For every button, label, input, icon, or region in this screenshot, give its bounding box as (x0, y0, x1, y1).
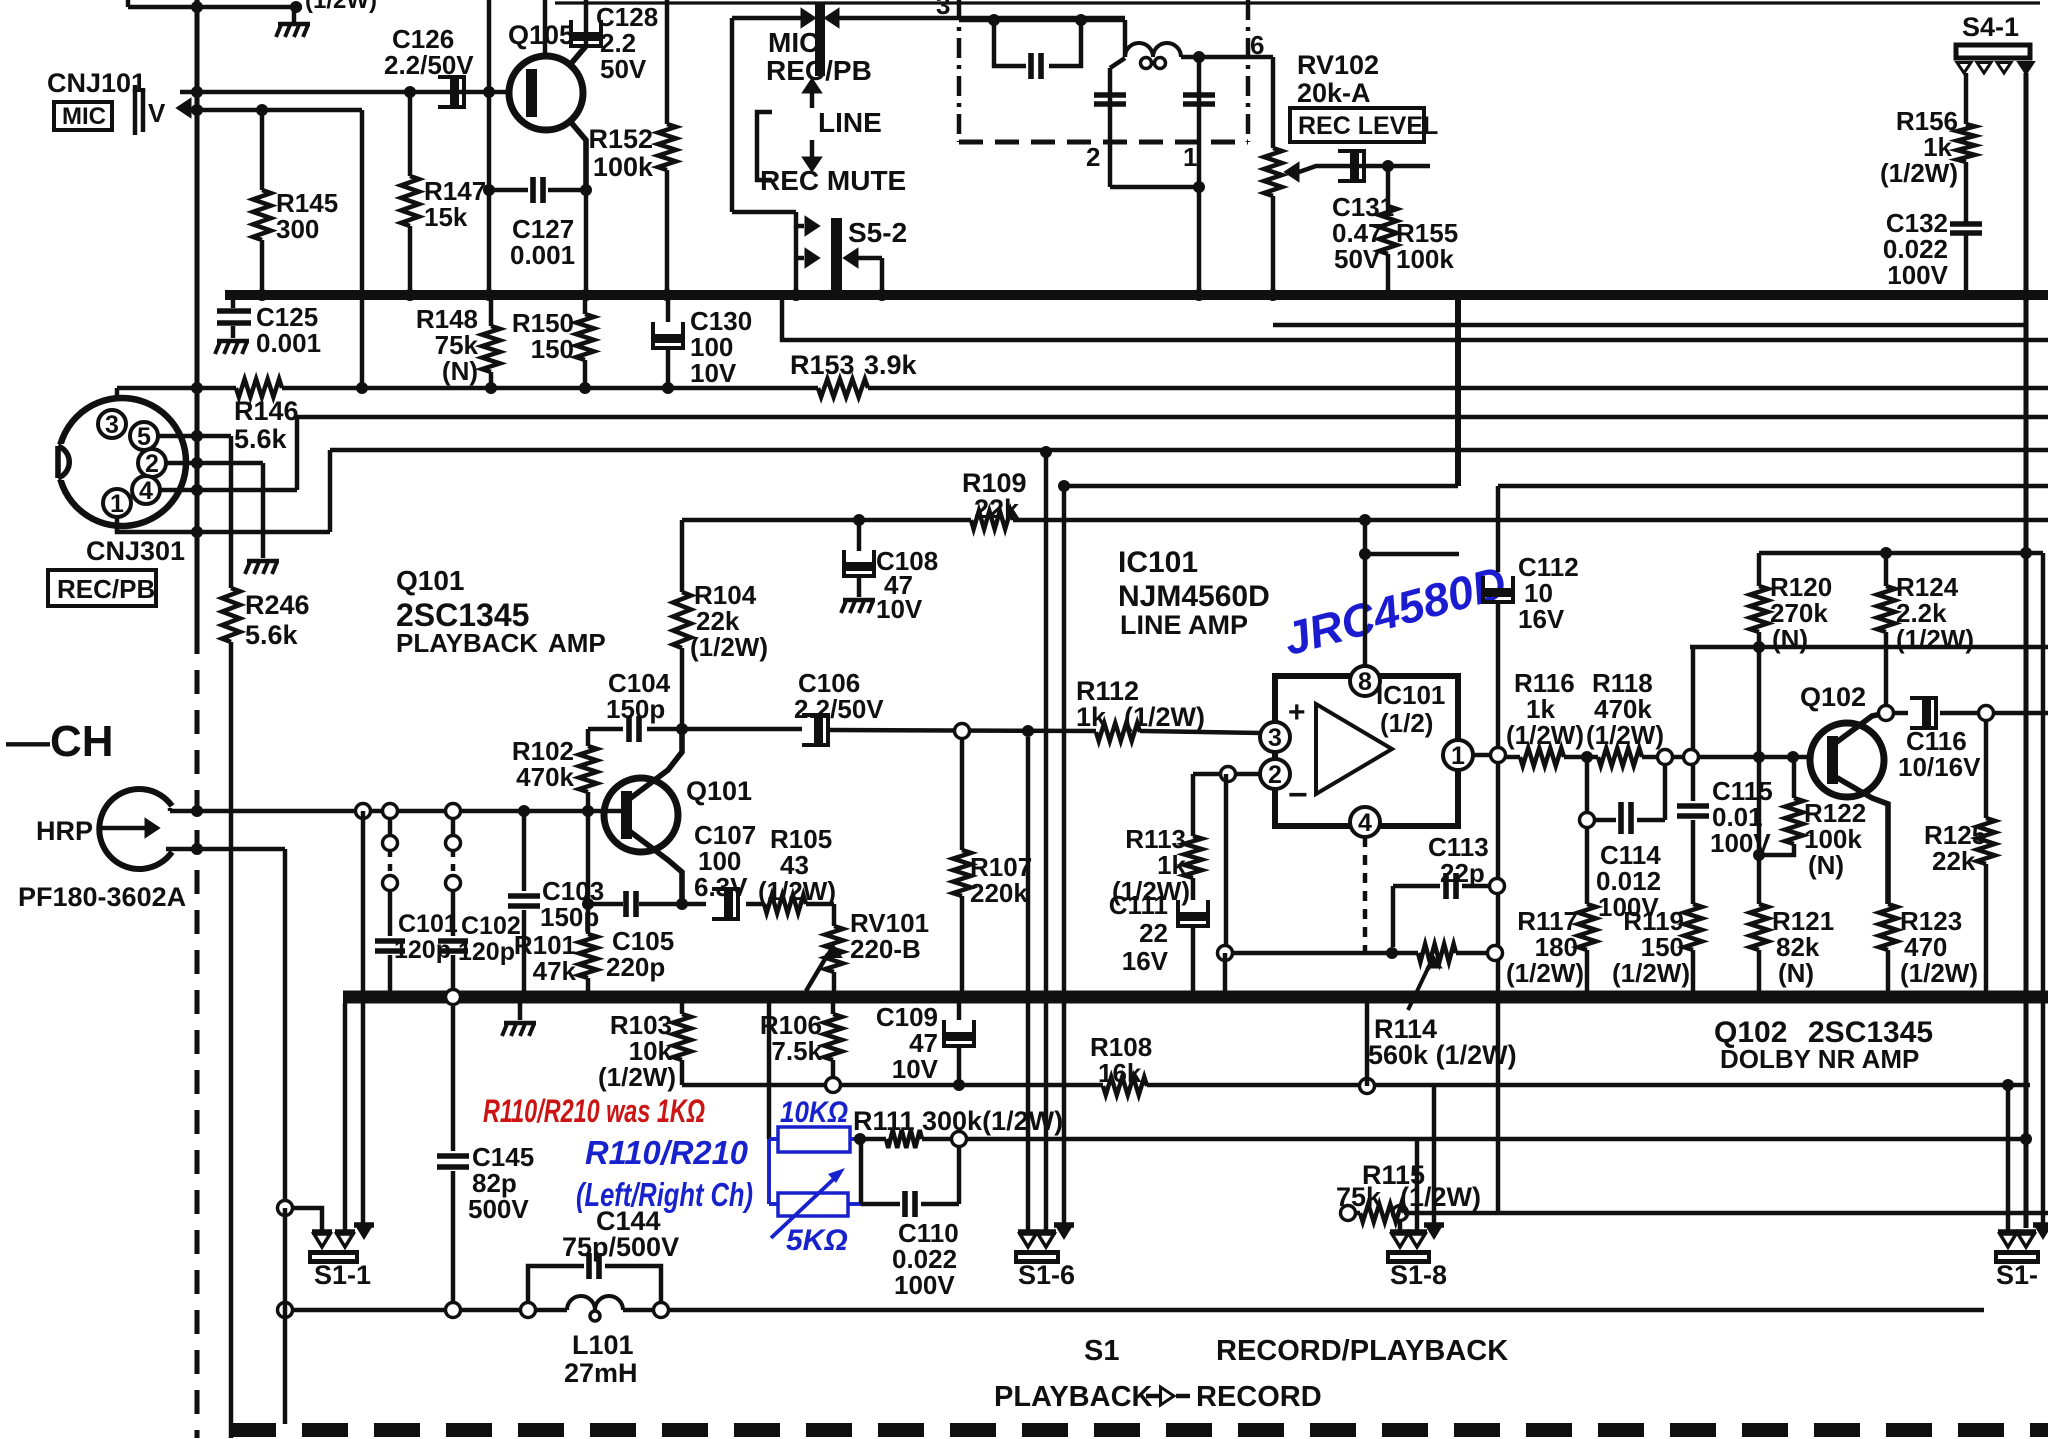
svg-text:(1/2W): (1/2W) (690, 632, 768, 662)
resistor R106 (824, 1003, 842, 1085)
label S1-x (1996, 1260, 2038, 1290)
svg-text:RECORD: RECORD (1196, 1381, 1322, 1413)
junction (1753, 751, 1765, 861)
switch arrow (806, 218, 818, 234)
capacitor C102 (438, 818, 468, 997)
label R152 (588, 124, 654, 182)
label R101 (514, 930, 577, 986)
label PF180-3602A (18, 882, 186, 912)
wire top border (555, 1, 2040, 4)
svg-text:MIC: MIC (768, 27, 819, 58)
resistor R117 (1578, 827, 1596, 997)
wire Q102 collector (1834, 706, 1894, 745)
wire line J (1365, 552, 1459, 556)
label C131 (1332, 192, 1394, 274)
wire (732, 212, 804, 226)
wire line D (1273, 295, 2026, 325)
resistor R125 (1977, 720, 1995, 997)
op-amp pin 8 (1350, 520, 1380, 696)
label R123 (1900, 906, 1978, 988)
svg-text:S1: S1 (1084, 1335, 1119, 1367)
wire C112 rail (1483, 486, 1513, 1213)
svg-text:10V: 10V (690, 358, 737, 388)
wire mic line 2 (197, 108, 362, 112)
wire line N (bottom) (285, 1308, 1984, 1312)
resistor R108 (1103, 1077, 1147, 1095)
junction (191, 382, 674, 394)
label R116 (1506, 668, 1584, 750)
switch arrow (796, 226, 818, 295)
junction (483, 86, 495, 98)
wire pin1 (117, 517, 330, 532)
svg-text:560k (1/2W): 560k (1/2W) (1368, 1040, 1517, 1070)
resistor R148 (482, 295, 500, 388)
wire (1223, 953, 1227, 991)
wire line M (R115) (1341, 1206, 2048, 1221)
connector pin 4 (132, 476, 160, 505)
junction (1193, 181, 1205, 193)
svg-text:4: 4 (1358, 809, 1372, 837)
wire line I right (1498, 484, 2048, 488)
wire HRP to S1-1 (283, 849, 287, 1208)
svg-text:RV102: RV102 (1297, 50, 1379, 80)
label R111 (853, 1106, 1063, 1136)
svg-text:22p: 22p (1440, 858, 1485, 888)
resistor R104 (673, 520, 691, 729)
switch S4-1 bar (1956, 45, 2030, 58)
switch MIC REC/PB bar (815, 2, 825, 76)
label - (1288, 776, 1308, 814)
node REC/PB box (48, 570, 156, 606)
capacitor C126 (438, 77, 464, 107)
capacitor C114 loop (1580, 757, 1666, 834)
svg-text:(1/2W): (1/2W) (1612, 958, 1690, 988)
label R117 (1506, 906, 1584, 988)
potentiometer RV102 (1264, 57, 1282, 295)
svg-text:Q101: Q101 (686, 776, 752, 806)
svg-text:16V: 16V (1518, 604, 1565, 634)
label head pin 6 (1250, 30, 1264, 60)
svg-text:3: 3 (936, 0, 950, 20)
svg-text:100V: 100V (1887, 260, 1948, 290)
wire pin1 out (1473, 748, 1506, 763)
svg-text:100V: 100V (894, 1270, 955, 1300)
label C114 (1596, 840, 1661, 922)
svg-text:+: + (1288, 696, 1306, 729)
connector pin 2 (138, 449, 166, 478)
label C112 (1518, 552, 1579, 634)
connector CNJ101 jack (135, 85, 190, 135)
plug ring (826, 1078, 841, 1093)
svg-text:IC101: IC101 (1118, 546, 1198, 579)
junction (1193, 289, 1205, 301)
wire ground bus (thick) (343, 991, 2048, 1004)
svg-text:2: 2 (1268, 761, 1282, 789)
capacitor C107 (712, 889, 738, 919)
capacitor C101 (375, 818, 405, 997)
capacitor C109 (944, 1003, 974, 1085)
rheostat R210 (blue) (769, 1168, 861, 1238)
svg-text:10V: 10V (892, 1054, 939, 1084)
label C116 (1898, 726, 1981, 782)
wire R146 top loop (360, 110, 364, 388)
junction (1267, 289, 1279, 301)
label C132 (1883, 208, 1949, 290)
label C125 (256, 302, 321, 358)
wire left rail dashed continuation (194, 630, 199, 1438)
label IC101 half (1376, 680, 1445, 738)
switch arrow down (804, 140, 820, 170)
svg-text:(1/2W): (1/2W) (758, 876, 836, 906)
label R110 red note (483, 1093, 705, 1129)
svg-text:75k: 75k (1336, 1182, 1382, 1212)
ground (245, 561, 279, 574)
wire pin5 drop (229, 436, 233, 588)
label C102 (458, 912, 521, 966)
svg-text:1k: 1k (1076, 702, 1107, 732)
svg-text:(1/2): (1/2) (1380, 708, 1433, 738)
svg-text:NJM4560D: NJM4560D (1118, 580, 1270, 613)
junction (676, 723, 688, 735)
label RV101 (850, 908, 929, 964)
switch arrow (845, 250, 882, 295)
svg-text:1: 1 (1183, 142, 1197, 172)
wire line K (1085) (682, 1083, 2030, 1087)
svg-text:(N): (N) (1772, 624, 1808, 654)
op-amp IC101 triangle (1316, 704, 1392, 794)
junction (483, 184, 592, 196)
label R155 (1396, 218, 1458, 274)
resistor R120 (1750, 553, 1768, 757)
svg-text:R111: R111 (853, 1106, 915, 1136)
node head box bottom (959, 139, 1248, 144)
label 5K (blue) (786, 1224, 848, 1257)
svg-text:C102: C102 (461, 912, 521, 940)
wire (361, 811, 365, 1227)
wire node line (R114) (1218, 946, 1503, 961)
junction (191, 430, 203, 538)
svg-text:RECORD/PLAYBACK: RECORD/PLAYBACK (1216, 1335, 1508, 1367)
svg-text:REC/PB: REC/PB (766, 55, 872, 86)
label CNJ301 (86, 536, 185, 566)
label R150 (512, 308, 574, 364)
transistor Q101 (604, 778, 678, 852)
wire pin4 bus drop (1365, 1003, 1369, 1086)
junction (191, 86, 203, 98)
switch arrow (826, 10, 838, 26)
capacitor C103 (508, 811, 540, 997)
label C110 (892, 1218, 959, 1300)
wire pin4 up (295, 492, 299, 496)
label R120 (1770, 572, 1832, 654)
label R125 (1924, 820, 1986, 876)
capacitor C105 (626, 891, 636, 917)
connector CNJ301 shell (48, 388, 186, 532)
wire 10K feed (767, 1003, 771, 1139)
resistor R147 (401, 92, 419, 295)
svg-text:CNJ101: CNJ101 (47, 68, 146, 98)
svg-text:4: 4 (139, 477, 153, 505)
capacitor head 2 (1183, 57, 1215, 187)
svg-text:S1-6: S1-6 (1018, 1260, 1075, 1290)
label playback-record (994, 1381, 1322, 1413)
label C127 (510, 214, 575, 270)
label C103 (540, 876, 604, 932)
svg-text:5: 5 (137, 423, 151, 451)
junction (256, 289, 673, 301)
label C105 (606, 926, 674, 982)
svg-text:LINE AMP: LINE AMP (1120, 610, 1248, 640)
label C113 (1428, 832, 1489, 888)
label C111 (1109, 890, 1169, 976)
junction (2020, 547, 2032, 1003)
label R103 (598, 1010, 676, 1092)
wire Q101 emitter (628, 830, 682, 904)
wire pin2 (166, 461, 263, 465)
op-amp pin 1 (1443, 740, 1473, 770)
label C107 (694, 820, 756, 902)
junction (953, 1079, 965, 1091)
svg-text:Q102: Q102 (1800, 682, 1866, 712)
svg-text:S5-2: S5-2 (848, 217, 907, 248)
label R107 (970, 852, 1032, 908)
junction (582, 898, 688, 910)
svg-text:3.9k: 3.9k (864, 350, 918, 380)
svg-text:R146: R146 (234, 396, 299, 426)
label head pin 2 (1086, 142, 1100, 172)
svg-text:C111: C111 (1109, 890, 1168, 920)
label C144 (562, 1206, 679, 1262)
svg-text:2.2/50V: 2.2/50V (794, 694, 884, 724)
svg-text:MIC: MIC (62, 103, 106, 130)
svg-text:S1-: S1- (1996, 1260, 2038, 1290)
junction (1581, 751, 1799, 763)
label S1-6 (1018, 1260, 1075, 1290)
label LINE (818, 107, 882, 138)
wire Q105 emitter (569, 120, 586, 190)
label R108 (1090, 1032, 1152, 1088)
resistor R246 (222, 588, 240, 1438)
wire (283, 1208, 287, 1424)
wire (1197, 187, 1201, 295)
svg-text:(N): (N) (442, 356, 478, 386)
transistor Q105 (509, 56, 583, 130)
switch arrow (802, 10, 814, 26)
wire right rail (2023, 73, 2028, 1228)
svg-text:L101: L101 (572, 1330, 634, 1360)
svg-text:5.6k: 5.6k (234, 424, 288, 454)
connector HRP head (99, 789, 172, 869)
label S1-1 (314, 1260, 371, 1290)
label Q102 block (1714, 1016, 1933, 1074)
plug ring (952, 1132, 967, 1147)
capacitor C106 (802, 715, 828, 745)
wire pin2 loop (1193, 767, 1260, 782)
label R102 (512, 736, 575, 792)
op-amp pin 4 (1350, 807, 1380, 837)
svg-text:5.6k: 5.6k (245, 620, 299, 650)
svg-text:220k: 220k (970, 878, 1028, 908)
plug ring (446, 990, 461, 1005)
resistor R146 (236, 379, 282, 397)
wire bottom dashed (thick) (230, 1423, 2048, 1437)
svg-text:V: V (148, 98, 166, 128)
label C104 (606, 668, 671, 724)
svg-text:75p/500V: 75p/500V (562, 1232, 679, 1262)
node head box right (1246, 0, 1250, 142)
wire line G (1690, 645, 2048, 649)
label REC MUTE (760, 165, 906, 196)
wire Q105 collector rail (543, 0, 547, 57)
capacitor head 1 (1094, 58, 1126, 187)
op-amp pin 3 (1260, 722, 1290, 752)
label C126 (384, 24, 474, 80)
label HRP (36, 816, 93, 846)
op-amp pin 2 (1260, 759, 1290, 789)
svg-text:1: 1 (110, 490, 124, 518)
resistor R103 (673, 1003, 691, 1085)
wire pin2 gnd (261, 463, 265, 558)
capacitor head series (994, 20, 1081, 79)
connector CNJ101 label (47, 68, 146, 98)
svg-text:3: 3 (105, 411, 119, 439)
resistor R153 (818, 379, 868, 397)
wire left vertical rail (194, 0, 199, 630)
label R153 (790, 350, 918, 380)
junction (384, 991, 1992, 1003)
wire (487, 0, 491, 295)
svg-text:10KΩ: 10KΩ (780, 1096, 848, 1129)
resistor R110 (blue) (769, 1127, 860, 1204)
label R121 (1772, 906, 1834, 988)
resistor R116 (1520, 748, 1564, 766)
svg-text:220p: 220p (606, 952, 665, 982)
switch S1-1 (278, 1003, 375, 1264)
label C130 (690, 306, 752, 388)
connector pin 3 (98, 410, 126, 439)
svg-text:(N): (N) (1778, 958, 1814, 988)
svg-text:R246: R246 (245, 590, 310, 620)
svg-text:(1/2W): (1/2W) (1506, 958, 1584, 988)
svg-text:8: 8 (1358, 668, 1372, 696)
switch S4-1 arrows (1957, 63, 2033, 74)
ground (215, 341, 249, 354)
transistor Q102 (1810, 723, 1884, 797)
wire long line B (297, 417, 2048, 490)
svg-text:(1/2W): (1/2W) (598, 1062, 676, 1092)
svg-text:PLAYBACK: PLAYBACK (994, 1381, 1153, 1413)
svg-text:(1/2W): (1/2W) (1124, 702, 1205, 732)
svg-text:—CH: —CH (6, 717, 114, 766)
resistor R114 (1418, 944, 1456, 962)
resistor R122 (1759, 757, 1803, 855)
resistor R152 (658, 0, 676, 295)
svg-text:C101: C101 (398, 910, 458, 938)
capacitor C132 (1950, 224, 1982, 295)
wire pin4 (160, 488, 297, 492)
svg-text:R153: R153 (790, 350, 855, 380)
svg-text:Q105: Q105 (508, 20, 574, 50)
resistor R101 (579, 904, 597, 997)
svg-text:300k(1/2W): 300k(1/2W) (922, 1106, 1063, 1136)
wire pin5 (158, 434, 231, 438)
label Q101 block (396, 565, 606, 658)
wire mic line (180, 90, 510, 94)
node MIC box (54, 102, 112, 130)
inductor head coil (1125, 20, 1181, 69)
label R124 (1896, 572, 1974, 654)
label R110 blue note (585, 1134, 749, 1171)
svg-text:16V: 16V (1122, 946, 1169, 976)
label Q101 (686, 776, 752, 806)
label R246 (245, 590, 310, 650)
svg-text:150p: 150p (606, 694, 665, 724)
wire bus B+ (thick) (225, 290, 2048, 300)
svg-text:6.3V: 6.3V (694, 872, 748, 902)
wire long line C (330, 450, 2048, 532)
wire (730, 18, 734, 212)
label S4-1 (1962, 12, 2019, 42)
capacitor C115 (1677, 647, 1709, 904)
wire top-left stub (128, 0, 302, 13)
resistor R156 (1957, 73, 1975, 223)
svg-text:R152: R152 (588, 124, 653, 154)
svg-text:150: 150 (531, 334, 574, 364)
wire line H (supply top) (1759, 553, 2043, 1225)
label S1-8 (1390, 1260, 1447, 1290)
label head pin 1 (1183, 142, 1197, 172)
connector pin 5 (130, 422, 158, 451)
svg-text:S4-1: S4-1 (1962, 12, 2019, 42)
svg-text:REC MUTE: REC MUTE (760, 165, 906, 196)
svg-text:2: 2 (145, 450, 159, 478)
junction (404, 86, 416, 98)
svg-text:R110/R210 was 1KΩ: R110/R210 was 1KΩ (483, 1093, 705, 1129)
ground (841, 600, 875, 613)
label C108 (876, 546, 938, 624)
label C145 (468, 1142, 534, 1224)
label R146 (234, 396, 299, 454)
label Q102 (1800, 682, 1866, 712)
resistor R105 (764, 895, 806, 913)
resistor R124 (1877, 553, 1895, 706)
wire line E (S5-2 out) (782, 295, 2048, 340)
junction (2020, 289, 2032, 301)
label R156 (1880, 106, 1958, 188)
wire head out bottom (166, 847, 285, 851)
svg-text:22k: 22k (1932, 846, 1976, 876)
svg-text:PLAYBACK: PLAYBACK (396, 628, 538, 658)
junction (1880, 547, 1892, 559)
svg-text:7.5k: 7.5k (771, 1036, 822, 1066)
svg-text:470k: 470k (516, 762, 574, 792)
wire (1181, 55, 1273, 59)
wire head out top (170, 808, 626, 811)
svg-text:2: 2 (1086, 142, 1100, 172)
wire head feed (839, 16, 1125, 20)
ground (502, 1003, 536, 1036)
resistor R150 (576, 295, 594, 388)
svg-text:120p: 120p (458, 938, 515, 966)
junction (988, 14, 1087, 26)
svg-text:(1/2W): (1/2W) (1900, 958, 1978, 988)
capacitor C104 (629, 716, 639, 742)
label -CH (6, 717, 114, 766)
svg-text:27mH: 27mH (564, 1358, 638, 1388)
capacitor C116 (1893, 698, 2048, 728)
resistor R113 (1184, 774, 1202, 900)
wire pin4 dashed (1363, 837, 1367, 953)
